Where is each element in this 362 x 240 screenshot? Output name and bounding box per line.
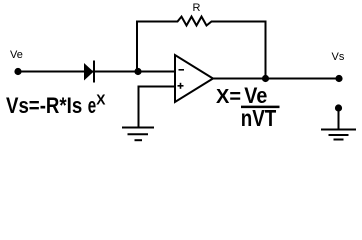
svg-text:nVT: nVT [241, 105, 276, 131]
svg-text:R: R [193, 2, 201, 14]
svg-text:X: X [96, 92, 105, 109]
svg-text:Ve: Ve [10, 49, 23, 61]
svg-text:Vs=-R*Is: Vs=-R*Is [6, 93, 82, 118]
svg-text:X=: X= [216, 86, 241, 108]
svg-text:e: e [88, 93, 96, 118]
svg-text:Vs: Vs [332, 51, 345, 63]
